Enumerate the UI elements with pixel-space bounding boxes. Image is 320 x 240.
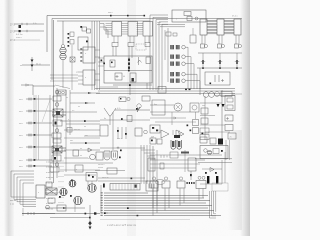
svg-text:25: 25 (230, 137, 232, 139)
svg-text:27-2: 27-2 (10, 32, 15, 34)
svg-text:x xxx xx: x xxx xx (46, 172, 53, 174)
svg-text:27-1: 27-1 (10, 25, 15, 27)
svg-text:xx: xx (80, 148, 82, 150)
svg-text:27-3: 27-3 (10, 40, 15, 42)
svg-text:xxx: xxx (85, 135, 88, 137)
svg-text:x xxf x-xx c xxT xxxx xx: x xxf x-xx c xxT xxxx xx (107, 223, 137, 227)
svg-text:x: x (176, 19, 177, 21)
svg-text:xx-x: xx-x (19, 166, 23, 168)
svg-text:xx-x xx: xx-x xx (74, 129, 80, 131)
svg-text:x xxx xx: x xxx xx (46, 167, 53, 169)
svg-text:xx-x: xx-x (19, 99, 23, 101)
svg-text:xx-x: xx-x (19, 160, 23, 162)
svg-text:xx-x: xx-x (19, 147, 23, 149)
svg-text:xxx x xx: xxx x xx (102, 177, 108, 179)
svg-text:= =-: = =- (33, 23, 37, 25)
svg-text:x: x (85, 53, 86, 55)
svg-text:x xxx xx: x xxx xx (46, 177, 53, 179)
svg-text:xx: xx (80, 155, 82, 157)
svg-text:xx-x: xx-x (19, 135, 23, 137)
svg-text:17: 17 (76, 72, 78, 74)
svg-text:40: 40 (123, 76, 125, 78)
svg-text:27-1 x: 27-1 x (232, 16, 238, 18)
svg-text:4-4 7xx: 4-4 7xx (16, 34, 23, 36)
svg-text:xxx: xxx (70, 140, 73, 142)
svg-text:xxx xx: xxx xx (10, 200, 17, 202)
svg-text:4x: 4x (104, 118, 106, 120)
svg-text:xx: xx (20, 65, 22, 67)
svg-text:x: x (68, 119, 69, 121)
svg-text:x x: x x (72, 110, 74, 112)
svg-text:xx xx: xx xx (157, 22, 161, 24)
svg-text:x xx x: x xx x (117, 138, 122, 140)
svg-text:x xx: x xx (88, 158, 91, 160)
svg-text:xx: xx (66, 97, 68, 99)
svg-text:x xxx xx: x xxx xx (46, 162, 53, 164)
svg-text:xx: xx (84, 126, 86, 128)
svg-text:x xxx xx: x xxx xx (46, 203, 53, 205)
svg-text:xxx x: xxx x (108, 12, 113, 14)
svg-text:xx xxx: xx xxx (98, 167, 103, 169)
svg-text:xx-x: xx-x (19, 123, 23, 125)
svg-text:xx: xx (78, 106, 80, 108)
svg-text:x xxx x: x xxx x (16, 37, 22, 39)
svg-text:x: x (38, 192, 39, 194)
svg-text:xxx xx x: xxx xx x (98, 164, 104, 166)
svg-text:449: 449 (151, 137, 154, 139)
svg-text:4.7x: 4.7x (117, 108, 120, 110)
svg-text:x: x (85, 77, 86, 79)
svg-text:xx-x: xx-x (19, 111, 23, 113)
svg-text:24 xx: 24 xx (36, 64, 41, 66)
svg-text:xxx: xxx (202, 105, 205, 107)
